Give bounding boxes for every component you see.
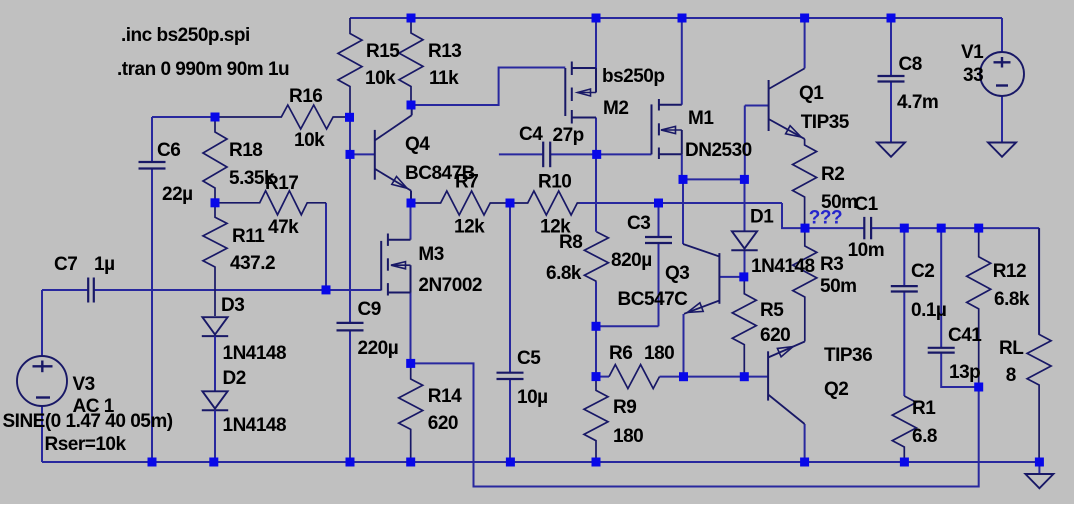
svg-text:R16: R16: [289, 86, 322, 107]
svg-text:C4: C4: [519, 124, 543, 145]
svg-text:6.8: 6.8: [912, 426, 937, 447]
svg-text:TIP36: TIP36: [824, 345, 872, 366]
svg-text:R3: R3: [820, 254, 843, 275]
svg-text:BC547C: BC547C: [618, 289, 689, 310]
svg-text:8: 8: [1006, 365, 1016, 386]
svg-text:180: 180: [613, 426, 643, 447]
svg-text:R14: R14: [428, 386, 462, 407]
svg-text:C8: C8: [899, 54, 922, 75]
svg-text:6.8k: 6.8k: [546, 263, 582, 284]
svg-text:10µ: 10µ: [517, 387, 548, 408]
svg-text:R17: R17: [265, 173, 298, 194]
svg-text:C2: C2: [911, 261, 934, 282]
svg-text:R7: R7: [455, 172, 478, 193]
svg-text:50m: 50m: [820, 276, 857, 297]
svg-text:Q2: Q2: [824, 379, 848, 400]
svg-text:R12: R12: [993, 261, 1026, 282]
svg-text:R2: R2: [821, 164, 844, 185]
svg-text:820µ: 820µ: [611, 250, 652, 271]
svg-text:M1: M1: [688, 108, 714, 129]
svg-text:C9: C9: [358, 299, 381, 320]
svg-text:10k: 10k: [294, 130, 325, 151]
svg-text:220µ: 220µ: [358, 338, 399, 359]
svg-text:1N4148: 1N4148: [751, 256, 815, 277]
svg-text:R1: R1: [912, 398, 936, 419]
svg-text:RL: RL: [999, 338, 1024, 359]
svg-text:DN2530: DN2530: [685, 140, 752, 161]
svg-text:R6: R6: [609, 343, 632, 364]
svg-text:R5: R5: [760, 300, 784, 321]
svg-text:Q4: Q4: [405, 134, 430, 155]
svg-text:180: 180: [644, 343, 674, 364]
svg-text:C1: C1: [854, 194, 878, 215]
svg-text:11k: 11k: [429, 68, 459, 89]
svg-text:620: 620: [428, 413, 458, 434]
svg-text:M3: M3: [418, 244, 443, 265]
svg-text:C5: C5: [517, 348, 541, 369]
svg-text:R9: R9: [613, 397, 636, 418]
svg-text:R8: R8: [559, 232, 582, 253]
svg-text:C7: C7: [54, 254, 77, 275]
svg-text:Q3: Q3: [665, 263, 689, 284]
svg-text:1N4148: 1N4148: [223, 343, 287, 364]
svg-text:C41: C41: [948, 325, 982, 346]
svg-text:D1: D1: [750, 207, 774, 228]
svg-text:437.2: 437.2: [230, 253, 275, 274]
svg-text:4.7m: 4.7m: [897, 92, 938, 113]
svg-text:???: ???: [809, 208, 842, 229]
svg-text:D3: D3: [221, 295, 244, 316]
svg-text:C3: C3: [627, 213, 650, 234]
svg-text:C6: C6: [157, 140, 180, 161]
svg-text:620: 620: [760, 325, 790, 346]
svg-text:33: 33: [963, 65, 983, 86]
svg-text:10m: 10m: [848, 240, 885, 261]
svg-text:10k: 10k: [365, 68, 396, 89]
svg-text:SINE(0 1.47 40 05m): SINE(0 1.47 40 05m): [3, 411, 173, 432]
svg-text:R13: R13: [428, 41, 461, 62]
svg-text:.tran 0 990m 90m 1u: .tran 0 990m 90m 1u: [117, 59, 289, 80]
svg-text:2N7002: 2N7002: [418, 275, 482, 296]
svg-text:0.1µ: 0.1µ: [911, 300, 946, 321]
svg-text:R11: R11: [232, 226, 265, 247]
svg-text:R15: R15: [366, 41, 400, 62]
svg-text:1N4148: 1N4148: [223, 415, 287, 436]
svg-text:R10: R10: [538, 172, 571, 193]
svg-text:.inc bs250p.spi: .inc bs250p.spi: [121, 25, 250, 46]
svg-text:M2: M2: [603, 98, 628, 119]
svg-text:6.8k: 6.8k: [994, 289, 1030, 310]
svg-text:27p: 27p: [553, 125, 584, 146]
svg-text:Q1: Q1: [799, 83, 824, 104]
svg-text:13p: 13p: [949, 362, 980, 383]
svg-text:47k: 47k: [268, 217, 299, 238]
svg-text:1µ: 1µ: [94, 254, 115, 275]
svg-text:V3: V3: [73, 374, 95, 395]
svg-text:Rser=10k: Rser=10k: [45, 434, 127, 455]
svg-text:22µ: 22µ: [162, 184, 193, 205]
svg-text:12k: 12k: [454, 217, 485, 238]
svg-text:D2: D2: [223, 368, 246, 389]
svg-text:V1: V1: [961, 42, 984, 63]
svg-text:bs250p: bs250p: [602, 66, 664, 87]
svg-text:R18: R18: [229, 140, 262, 161]
svg-text:TIP35: TIP35: [801, 112, 850, 133]
